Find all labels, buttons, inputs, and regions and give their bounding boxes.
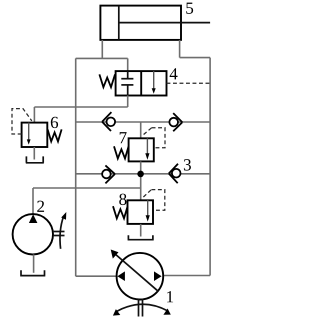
valve 4 body (116, 71, 167, 95)
wire valve7 to valve8 (140, 161, 142, 200)
valve 7 body (129, 138, 154, 161)
valve 4 right position: down arrow (153, 71, 155, 90)
wire pump2 to valve8 horizontal (33, 187, 141, 189)
pump 1 bidirectional arc arrow (116, 304, 169, 312)
valve 8 pilot dashed (143, 190, 164, 211)
tank under valve 6 (26, 156, 44, 162)
wire right main vertical (209, 58, 211, 276)
wire top-left horizontal (76, 57, 128, 59)
cylinder rod line / label-5 leader (119, 22, 210, 24)
pump 1 shaft lines (138, 299, 140, 317)
valve 6 internal arrow (28, 123, 30, 141)
junction dot (137, 171, 144, 178)
valve 8 body (128, 200, 154, 224)
cylinder piston (118, 6, 120, 40)
valve 7 pilot dashed (144, 128, 165, 148)
pump 2 inlet pipe (32, 188, 34, 214)
tank under valve 8 (128, 235, 154, 239)
label 5 (186, 3, 193, 14)
valve 6 drain pipe (33, 147, 35, 160)
valve 7 internal arrow (146, 138, 148, 155)
wire valve4 bottom stub (127, 96, 129, 108)
check valve top-right: seat (173, 113, 182, 131)
pump 2 variable ticks (54, 231, 65, 233)
valve 8 drain pipe (140, 224, 142, 237)
pump 2 drain pipe (33, 254, 35, 272)
cylinder U5 body (100, 6, 181, 40)
wire valve6 inlet (33, 107, 35, 123)
pump 2 circle (13, 214, 53, 254)
valve 6 body (22, 123, 48, 147)
wire valve4 top stub (127, 58, 129, 71)
top check row wire (76, 121, 210, 123)
pump 1 variable arrow line (115, 254, 159, 292)
label 1 (167, 291, 173, 302)
valve 4 divider (140, 71, 142, 95)
valve 7 spring (114, 146, 129, 158)
check valve row2-left: ball (102, 170, 111, 179)
check valve top-left: ball (107, 118, 116, 127)
pump 2 control arc arrow (60, 217, 64, 249)
valve 4 left position: blocked port T symbols (127, 71, 129, 79)
check valve row2-left: seat (105, 165, 115, 183)
wire cylinder left port down (101, 40, 103, 59)
label 7 (120, 132, 127, 143)
valve 6 spring (48, 129, 62, 141)
wire left main vertical (75, 58, 77, 276)
valve 8 internal arrow (147, 200, 149, 216)
valve 8 spring (113, 206, 128, 218)
label 8 (119, 194, 126, 205)
pump 2 triangle (29, 214, 38, 223)
wire horizontal to valve 6 (34, 106, 127, 108)
valve 4 pilot dashed line (167, 82, 211, 84)
pump 1 variable arrow head (111, 250, 119, 259)
wire pump1 right to main (163, 275, 210, 277)
valve 6 pilot dashed (12, 109, 32, 134)
tank under pump 2 (20, 270, 45, 275)
wire cylinder right port down (179, 40, 181, 58)
pump 1 left triangle (117, 271, 125, 281)
check valve top-left: seat (102, 112, 111, 131)
label 4 (170, 68, 178, 79)
label 2 (37, 201, 44, 212)
label 6 (51, 117, 58, 128)
wire bottom-left to pump1 (76, 275, 117, 277)
second row wire (76, 173, 210, 175)
pump 1 circle (117, 253, 164, 300)
pump 1 right triangle (154, 271, 162, 281)
wire valve7 inlet (140, 122, 142, 138)
label 3 (184, 159, 191, 170)
wire top-right horizontal (180, 57, 211, 59)
valve 4 spring (99, 74, 115, 87)
check valve 3: ball (172, 169, 181, 178)
check valve 3: seat (169, 164, 178, 183)
check valve top-right: ball (169, 118, 178, 127)
